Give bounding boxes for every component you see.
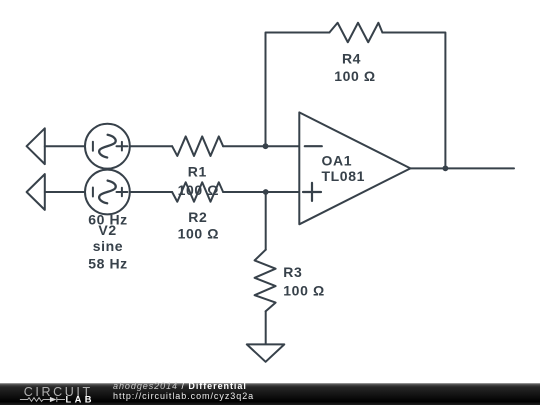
wire R3 to ground — [265, 311, 267, 344]
wire V2 to R2 — [130, 191, 172, 193]
svg-text:100 Ω: 100 Ω — [178, 225, 219, 241]
wire R2 to op-amp non-inverting input — [223, 191, 299, 193]
node junction output — [443, 165, 449, 171]
svg-text:V2: V2 — [98, 222, 116, 238]
wire T1 to V1 — [45, 145, 85, 147]
wire feedback right vertical — [382, 33, 445, 169]
input terminal T1 — [27, 128, 45, 164]
wire feedback left vertical — [266, 33, 330, 147]
op-amp OA1 — [299, 112, 410, 224]
svg-text:R2: R2 — [188, 209, 207, 225]
wire T2 to V2 — [45, 191, 85, 193]
resistor R4 — [329, 23, 382, 43]
svg-text:58 Hz: 58 Hz — [88, 255, 128, 271]
svg-text:100 Ω: 100 Ω — [334, 68, 375, 84]
resistor R2 — [172, 182, 223, 202]
svg-text:100 Ω: 100 Ω — [178, 182, 219, 198]
footer credit line — [113, 381, 254, 402]
resistor R1 — [172, 136, 223, 156]
voltage source V2 — [85, 170, 130, 215]
node junction inverting input — [263, 143, 269, 149]
resistor R3 — [255, 250, 276, 312]
wire R3 top lead — [265, 192, 267, 250]
svg-text:R1: R1 — [188, 164, 207, 180]
svg-text:TL081: TL081 — [322, 168, 365, 184]
node junction non-inverting input — [263, 189, 269, 195]
svg-text:100 Ω: 100 Ω — [283, 283, 324, 299]
svg-text:R3: R3 — [283, 264, 302, 280]
svg-text:R4: R4 — [342, 50, 361, 66]
svg-text:LAB: LAB — [66, 394, 95, 404]
wire V1 to R1 — [130, 145, 172, 147]
logo resistor-diode squiggle — [20, 397, 65, 402]
voltage source V1 — [85, 124, 130, 169]
CircuitLab logo — [0, 384, 110, 405]
footer bar — [0, 383, 540, 405]
svg-text:sine: sine — [93, 238, 123, 254]
wire op-amp output — [410, 167, 514, 169]
wire R1 to op-amp inverting input — [223, 145, 299, 147]
svg-text:OA1: OA1 — [322, 152, 353, 168]
ground — [247, 344, 284, 361]
input terminal T2 — [27, 174, 45, 210]
